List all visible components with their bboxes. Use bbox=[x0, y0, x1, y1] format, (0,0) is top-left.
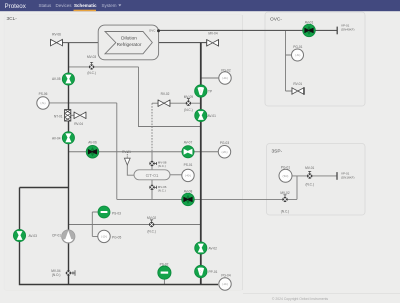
svg-text:Devices: Devices bbox=[56, 3, 73, 8]
svg-text:MV-02: MV-02 bbox=[280, 191, 289, 195]
svg-text:AV-07: AV-07 bbox=[184, 141, 193, 145]
svg-text:(-40-): (-40-) bbox=[222, 77, 228, 80]
svg-text:(-40-): (-40-) bbox=[185, 174, 191, 177]
svg-text:PG-05: PG-05 bbox=[112, 236, 121, 240]
svg-text:AV-05: AV-05 bbox=[52, 77, 61, 81]
svg-text:Proteox: Proteox bbox=[5, 3, 27, 10]
svg-text:AV-03: AV-03 bbox=[29, 234, 38, 238]
svg-text:(N.C.): (N.C.) bbox=[87, 71, 96, 75]
svg-text:OVC: OVC bbox=[149, 29, 156, 33]
svg-text:PS-02: PS-02 bbox=[160, 263, 169, 267]
svg-text:AV-04: AV-04 bbox=[52, 136, 61, 140]
svg-text:(DN40KF): (DN40KF) bbox=[341, 27, 355, 31]
svg-text:3SP-: 3SP- bbox=[272, 149, 283, 155]
svg-text:TP: TP bbox=[208, 89, 212, 93]
svg-text:MV-04: MV-04 bbox=[208, 32, 217, 36]
svg-text:PS-01: PS-01 bbox=[184, 163, 193, 167]
svg-text:(-20-): (-20-) bbox=[222, 151, 228, 154]
svg-text:CP-01: CP-01 bbox=[52, 233, 61, 237]
svg-text:(-N-): (-N-) bbox=[295, 54, 300, 57]
svg-text:GT-01: GT-01 bbox=[146, 173, 159, 178]
svg-text:PS-06: PS-06 bbox=[39, 92, 48, 96]
svg-text:© 2024 Copyright Oxford Instru: © 2024 Copyright Oxford Instruments bbox=[272, 297, 329, 301]
svg-text:MV-03: MV-03 bbox=[87, 55, 96, 59]
svg-text:(N.C.): (N.C.) bbox=[281, 210, 290, 214]
svg-text:PP-01: PP-01 bbox=[209, 270, 218, 274]
svg-text:RV-01: RV-01 bbox=[293, 82, 302, 86]
svg-text:(N.C.): (N.C.) bbox=[305, 183, 314, 187]
svg-text:PG-01: PG-01 bbox=[281, 166, 290, 170]
svg-text:(-10-): (-10-) bbox=[222, 283, 228, 286]
svg-text:(Torr): (Torr) bbox=[283, 175, 289, 178]
svg-text:MV-09: MV-09 bbox=[184, 95, 193, 99]
svg-text:PG-04: PG-04 bbox=[221, 273, 230, 277]
svg-text:AV-02: AV-02 bbox=[209, 247, 218, 251]
svg-text:PG-03: PG-03 bbox=[220, 141, 229, 145]
svg-text:MV-02: MV-02 bbox=[147, 216, 156, 220]
svg-text:(N.C.): (N.C.) bbox=[184, 108, 193, 112]
svg-text:NT-01: NT-01 bbox=[54, 115, 63, 119]
svg-text:PS-03: PS-03 bbox=[112, 211, 121, 215]
svg-text:RV-02: RV-02 bbox=[161, 92, 170, 96]
svg-text:Schematic: Schematic bbox=[74, 3, 97, 8]
svg-text:System: System bbox=[102, 3, 117, 8]
svg-text:(DN16KF): (DN16KF) bbox=[341, 175, 355, 179]
svg-text:(N.O.): (N.O.) bbox=[52, 273, 61, 277]
svg-text:RV-01: RV-01 bbox=[122, 150, 131, 154]
svg-text:3CL-: 3CL- bbox=[7, 16, 18, 22]
svg-text:PG-02: PG-02 bbox=[221, 68, 230, 72]
svg-text:AV-01: AV-01 bbox=[305, 20, 314, 24]
svg-text:Status: Status bbox=[39, 3, 53, 8]
svg-text:Dilution: Dilution bbox=[121, 36, 137, 41]
svg-text:OVC-: OVC- bbox=[270, 17, 282, 23]
svg-text:AV-08: AV-08 bbox=[184, 189, 193, 193]
svg-text:(N.C.): (N.C.) bbox=[158, 189, 166, 193]
svg-text:MV-01: MV-01 bbox=[305, 166, 314, 170]
svg-text:AV-06: AV-06 bbox=[88, 141, 97, 145]
svg-text:(-10-): (-10-) bbox=[101, 235, 107, 238]
svg-text:AV-01: AV-01 bbox=[208, 114, 217, 118]
svg-text:(-N-): (-N-) bbox=[41, 102, 46, 105]
svg-text:Refrigerator: Refrigerator bbox=[117, 42, 142, 47]
svg-text:RV-04: RV-04 bbox=[74, 122, 83, 126]
svg-text:(N.C.): (N.C.) bbox=[158, 164, 166, 168]
svg-text:RV-06: RV-06 bbox=[52, 33, 61, 37]
svg-text:PG-01: PG-01 bbox=[293, 45, 302, 49]
svg-text:(N.C.): (N.C.) bbox=[147, 230, 156, 234]
